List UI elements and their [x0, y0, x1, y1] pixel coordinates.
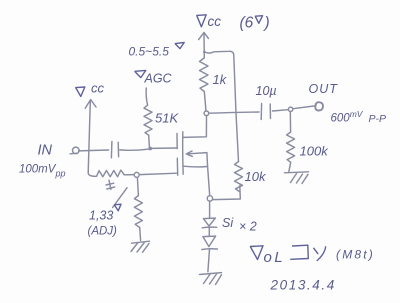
- svg-text:2013.4.4: 2013.4.4: [270, 278, 336, 293]
- wire output junction down to 100k: [289, 112, 291, 133]
- terminal IN: [73, 147, 80, 154]
- svg-text:10k: 10k: [245, 169, 267, 184]
- wire AGC label to 51k: [146, 88, 147, 105]
- svg-text:(ADJ): (ADJ): [88, 226, 118, 238]
- svg-text:cc: cc: [208, 14, 222, 29]
- diode D1 (Si): [202, 218, 217, 236]
- svg-text:(M8t): (M8t): [336, 248, 375, 262]
- label katakana n of title: [314, 247, 326, 261]
- ground below 100k: [285, 172, 309, 184]
- wire 10k to source node: [213, 186, 240, 200]
- svg-text:10µ: 10µ: [256, 84, 277, 98]
- resistor R ADJ: [134, 196, 142, 228]
- node junction gate2: [148, 147, 152, 151]
- label nabla of Vcc left: [76, 87, 85, 97]
- power arrow Vcc left: [85, 100, 96, 173]
- svg-text:0.5~5.5: 0.5~5.5: [129, 45, 170, 59]
- svg-text:(6: (6: [240, 15, 254, 32]
- annotation adjust squiggle: [106, 180, 115, 189]
- junction dot at Vcc base: [203, 51, 206, 54]
- label nabla of AGC: [135, 70, 146, 77]
- wire gate1 lead: [139, 173, 177, 174]
- annotation leader slash to 1.33V node: [113, 188, 127, 208]
- resistor R 100k: [287, 132, 295, 162]
- capacitor C input: [111, 142, 118, 158]
- wire drain node to capacitor: [209, 112, 259, 113]
- wire capacitor to OUT junction: [273, 110, 289, 111]
- source/bulk vertical down to node: [207, 153, 210, 196]
- bulk arrow: [188, 153, 207, 154]
- svg-text:cc: cc: [91, 81, 105, 96]
- wire gate2 lead: [152, 147, 177, 149]
- node junction 1.33V: [134, 172, 139, 177]
- node junction drain: [204, 111, 209, 116]
- resistor R 1k: [200, 58, 209, 92]
- ground below ADJ resistor: [131, 241, 150, 252]
- wire 1k to drain node: [204, 92, 206, 112]
- wire source node to diodes: [209, 201, 211, 217]
- wire ADJ resistor to ground: [139, 227, 142, 240]
- svg-text:Si: Si: [222, 216, 234, 230]
- resistor R 51k: [144, 105, 152, 135]
- wire 51k to gate2 junction: [148, 135, 151, 147]
- channel: [182, 132, 185, 174]
- wire capacitor to gate2 junction: [120, 149, 148, 150]
- svg-text:IN: IN: [38, 143, 53, 159]
- node junction output: [288, 107, 292, 111]
- wire IN to capacitor: [79, 149, 109, 152]
- wire junction to OUT terminal: [293, 106, 315, 109]
- label nabla small in (6V): [255, 16, 262, 24]
- resistor R 10k: [235, 162, 243, 192]
- svg-text:1k: 1k: [213, 72, 228, 87]
- wire 1.33V node down to ADJ resistor: [137, 178, 138, 196]
- label katakana ko of title: [291, 245, 309, 259]
- svg-text:100k: 100k: [300, 144, 330, 159]
- svg-text:× 2: × 2: [239, 220, 257, 234]
- wire 100k to ground: [289, 162, 291, 172]
- label nabla superscript of 0.5~5.5V: [175, 43, 184, 49]
- drain lead: [183, 116, 206, 138]
- label nabla of Vcc top: [197, 15, 206, 27]
- source lead: [184, 165, 208, 168]
- svg-text:OUT: OUT: [309, 82, 339, 96]
- gate1 bar: [176, 158, 178, 175]
- svg-text:51K: 51K: [155, 111, 179, 126]
- wire divider resistor to node: [124, 174, 134, 176]
- svg-text:oL: oL: [264, 249, 286, 266]
- node junction source: [207, 196, 212, 201]
- capacitor C 10u: [261, 104, 270, 120]
- wire corner to divider resistor: [88, 173, 96, 177]
- diode D2 (Si): [202, 236, 218, 272]
- power arrow Vcc top: [199, 32, 209, 58]
- label nabla superscript of 1.33V: [115, 204, 122, 211]
- resistor R divider top (1.33V): [97, 170, 125, 177]
- wire Vcc to right rail: [206, 51, 239, 161]
- label nabla of VOL title: [251, 246, 264, 260]
- svg-text:AGC: AGC: [144, 72, 173, 86]
- terminal OUT: [315, 102, 323, 110]
- svg-text:1,33: 1,33: [89, 209, 113, 223]
- gate2 bar: [176, 134, 178, 149]
- svg-text:): ): [263, 15, 270, 32]
- ground below diodes: [200, 273, 222, 285]
- transistor Q1 dual-gate MOSFET: [177, 116, 210, 196]
